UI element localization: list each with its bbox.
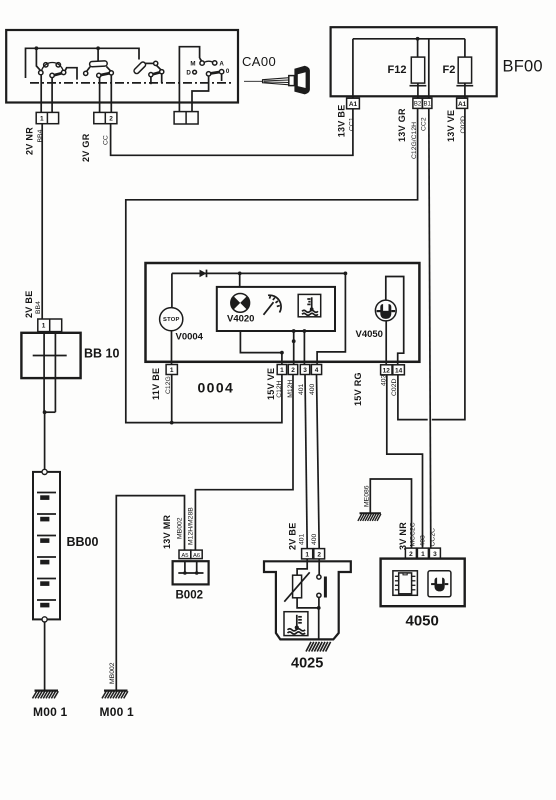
wire gauge module to pin 3: [303, 331, 305, 365]
node mid pin2 wire: [292, 339, 296, 343]
svg-text:2V BE: 2V BE: [24, 290, 34, 318]
node on bus above switch 1: [35, 46, 39, 50]
warning lamp V4050: [375, 300, 396, 321]
wire CC2: fuse B1 to 4050 pin 3: [429, 108, 431, 548]
svg-text:BB00: BB00: [67, 535, 99, 549]
wire V4050 top to pin 14: [386, 277, 404, 365]
wire branch up to pin C12G: [171, 375, 173, 423]
node on pin1 wire: [280, 351, 284, 355]
svg-text:D: D: [186, 70, 191, 77]
svg-text:V4020: V4020: [227, 313, 254, 324]
node below BB10: [43, 410, 47, 414]
internal supply bus of CA00: [26, 48, 140, 78]
wire MCC2C: 4050 pin 2 to ground ME086: [370, 479, 411, 548]
coolant temp icon in 4025: [284, 612, 308, 636]
svg-text:M: M: [190, 60, 195, 67]
svg-text:15V VE: 15V VE: [266, 368, 276, 400]
svg-text:M00 1: M00 1: [33, 705, 67, 719]
svg-text:2V GR: 2V GR: [81, 133, 91, 162]
svg-text:0: 0: [226, 68, 230, 75]
wire 403: pin 12 to 4050 pin 1: [387, 375, 423, 548]
svg-text:F2: F2: [443, 64, 456, 76]
wire battery to ground M001: [44, 622, 46, 690]
wire STOP lamp to pin 1 (C12G): [171, 330, 173, 365]
node bus right end: [344, 272, 348, 276]
wire C12G/C12H: fuse B2 to cluster pins C12G and C12H: [126, 108, 418, 422]
ignition switch box CA00: [6, 30, 238, 103]
svg-text:4050: 4050: [406, 613, 439, 630]
pin 1 of 4050: [417, 548, 428, 558]
wire switch1 to connector 1 (left): [40, 75, 42, 113]
svg-text:B1: B1: [424, 102, 432, 108]
svg-text:403: 403: [420, 535, 427, 547]
svg-text:CC: CC: [103, 135, 110, 145]
pin 2 of 4050: [405, 548, 416, 558]
coolant temperature gauge icon: [298, 294, 321, 316]
svg-text:C02D: C02D: [460, 116, 467, 133]
pin B1 of BF00: [422, 98, 432, 108]
pin A1 (C02D) of BF00: [457, 98, 468, 108]
node on bus above switch 2: [96, 46, 100, 50]
pin A6 of B002: [191, 550, 202, 559]
pin A5 of B002: [179, 550, 191, 559]
diode on bus: [200, 270, 207, 278]
svg-text:A6: A6: [193, 553, 200, 559]
switch contact set 1: [36, 48, 77, 79]
wire M12H/M28B: pin 2 to B002 A6: [195, 375, 293, 551]
svg-text:13V VE: 13V VE: [446, 110, 456, 142]
mechanical dash-dot linkage line: [30, 82, 234, 84]
gauge module inner box: [217, 287, 335, 331]
node C12G/C12H junction: [170, 421, 174, 425]
svg-text:400: 400: [309, 383, 316, 395]
connector 1 of CA00: [36, 112, 58, 123]
svg-text:C02D: C02D: [391, 379, 398, 396]
svg-text:12: 12: [383, 368, 391, 375]
svg-text:A5: A5: [181, 553, 188, 559]
wire bus to STOP lamp: [171, 273, 173, 307]
svg-text:15V RG: 15V RG: [353, 372, 363, 406]
pin 3 (401) of 0004: [300, 365, 309, 375]
svg-text:CA00: CA00: [242, 54, 276, 69]
svg-text:400: 400: [311, 533, 318, 545]
pin 3 of 4050: [429, 548, 440, 558]
svg-text:1: 1: [305, 551, 309, 558]
svg-text:V4050: V4050: [356, 329, 383, 340]
connector 3 of CA00 (unlabelled pair): [174, 112, 198, 124]
pin A1 (CC1) of BF00: [347, 98, 360, 109]
svg-text:B2: B2: [414, 102, 422, 108]
fuse F12: [388, 39, 427, 98]
switch contact in 4025: [317, 559, 326, 608]
wire 400: pin 4 to 4025 pin 2: [317, 375, 320, 549]
wire thermistor to node: [297, 598, 319, 608]
svg-text:1: 1: [170, 367, 174, 374]
svg-text:4: 4: [315, 367, 319, 374]
node at module bottom pin2 wire: [292, 329, 296, 333]
svg-text:3: 3: [433, 551, 437, 558]
svg-text:3V NR: 3V NR: [398, 522, 408, 550]
svg-text:F12: F12: [388, 64, 407, 76]
pin 14 of 0004: [393, 365, 405, 375]
warning lamp V0004 (STOP): [160, 308, 183, 331]
IC icon in 4050: [393, 571, 418, 596]
svg-text:STOP: STOP: [163, 317, 179, 323]
svg-text:2: 2: [109, 116, 113, 123]
ground M001 (battery): [33, 691, 59, 699]
svg-text:CC2: CC2: [421, 117, 428, 131]
pin 4 (400) of 0004: [311, 365, 321, 375]
wire link to pin 1: [281, 353, 283, 365]
node at module bottom pin3 wire: [303, 329, 307, 333]
svg-text:A: A: [219, 60, 224, 67]
svg-text:C12G: C12G: [165, 376, 172, 394]
svg-text:11V BE: 11V BE: [151, 368, 161, 400]
wire 2V NR: connector1 down to BB10: [41, 124, 43, 319]
pin 1 of 4025: [302, 549, 313, 559]
pin 2 of 4025: [314, 549, 325, 559]
pin 12 of 0004: [381, 365, 392, 375]
battery master switch BB10: [21, 332, 80, 413]
svg-text:401: 401: [298, 383, 305, 395]
internal bus of BF00: [353, 38, 465, 40]
svg-text:B002: B002: [176, 590, 204, 602]
switch contact set 2: [84, 48, 114, 77]
svg-text:A1: A1: [349, 101, 358, 108]
svg-text:0004: 0004: [198, 380, 235, 396]
coolant temperature sensor 4025: [264, 561, 351, 639]
wire BB10 to battery BB00: [44, 412, 46, 469]
svg-text:A1: A1: [458, 101, 467, 108]
svg-text:V0004: V0004: [176, 332, 204, 343]
fuse box BF00: [331, 27, 497, 96]
instrument cluster box 0004: [146, 263, 420, 362]
ground under 4025: [306, 642, 331, 652]
junction box B002: [173, 561, 209, 584]
wire bus down to gauge module: [239, 273, 241, 287]
connector of BB10: [38, 319, 62, 332]
svg-text:3: 3: [303, 367, 307, 374]
svg-text:CC2C: CC2C: [430, 528, 437, 547]
wire switch2 to connector 2 (right): [110, 75, 112, 112]
pin 1 (C12H) of 0004: [277, 365, 286, 375]
ground ME086: [358, 513, 381, 521]
svg-text:CC1: CC1: [349, 117, 356, 131]
wire node to case ground: [318, 608, 320, 640]
sensor icon in 4050: [428, 571, 451, 597]
wire switch1 to connector 1 (right): [51, 78, 53, 113]
pin 1 (C12G) of 0004: [166, 365, 177, 375]
wire 401: pin 3 to 4025 pin 1: [305, 375, 307, 549]
engine control unit 4050: [381, 559, 465, 607]
wire bus to pin B1: [428, 39, 430, 98]
fuel gauge icon: [264, 295, 282, 315]
svg-text:2: 2: [291, 367, 295, 374]
svg-text:M12H/M28B: M12H/M28B: [188, 507, 195, 545]
svg-text:BF00: BF00: [503, 57, 543, 75]
svg-text:1: 1: [42, 323, 46, 330]
wire bus end down to pin 4: [317, 273, 345, 364]
svg-text:1: 1: [280, 367, 284, 374]
battery BB00: [33, 469, 60, 622]
pin 2 (M12H) of 0004: [288, 365, 297, 375]
wire gauge module down to pin 1 link: [240, 331, 282, 353]
pin B2 of BF00: [413, 98, 423, 108]
svg-text:13V GR: 13V GR: [397, 108, 407, 142]
fuse F2: [443, 39, 474, 98]
node bus to V4020: [238, 272, 242, 276]
wire C02D: pin 14 to fuse A1: [398, 375, 428, 420]
svg-text:13V MR: 13V MR: [162, 514, 172, 549]
svg-text:14: 14: [395, 368, 403, 375]
svg-text:MB002: MB002: [109, 662, 116, 684]
svg-text:2: 2: [317, 551, 321, 558]
warning lamp V4020: [231, 294, 250, 313]
svg-text:2V NR: 2V NR: [25, 127, 35, 155]
wire MB002: B002 A5 to ground: [116, 496, 184, 690]
svg-text:BB4: BB4: [35, 301, 42, 314]
svg-text:1: 1: [40, 116, 44, 123]
svg-text:MB002: MB002: [177, 517, 184, 539]
svg-text:MCC2C: MCC2C: [410, 522, 417, 546]
ground M001 (harness): [102, 691, 128, 699]
connector 2 of CA00: [94, 112, 117, 123]
wire V4050 bottom to pin 12: [385, 321, 387, 365]
svg-text:401: 401: [299, 533, 306, 545]
wire switch2 to connector 2 (left): [99, 78, 101, 113]
internal bus of 0004: [172, 272, 346, 274]
svg-text:13V BE: 13V BE: [336, 104, 346, 137]
svg-text:4025: 4025: [291, 656, 323, 672]
wire pin1 to thermistor: [297, 559, 307, 575]
wire CC: connector2 to fuse box A1: [111, 109, 353, 155]
switch contact set 3: [133, 61, 164, 84]
wire gauge module to pin 2: [293, 331, 295, 365]
svg-text:BB 10: BB 10: [84, 347, 119, 361]
svg-text:C12H: C12H: [276, 380, 283, 397]
node at fuse F12 top: [416, 37, 420, 41]
thermistor: [284, 572, 309, 601]
svg-text:1: 1: [421, 551, 425, 558]
svg-text:2V BE: 2V BE: [288, 522, 298, 550]
svg-text:M00 1: M00 1: [100, 705, 134, 719]
svg-text:ME086: ME086: [364, 485, 371, 507]
svg-text:2: 2: [409, 551, 413, 558]
wire bus to pin A1: [352, 39, 354, 98]
node in 4025: [317, 606, 321, 610]
switch contact set 4 (M/A/D ignition contact): [179, 47, 229, 112]
key symbol: [244, 66, 310, 95]
